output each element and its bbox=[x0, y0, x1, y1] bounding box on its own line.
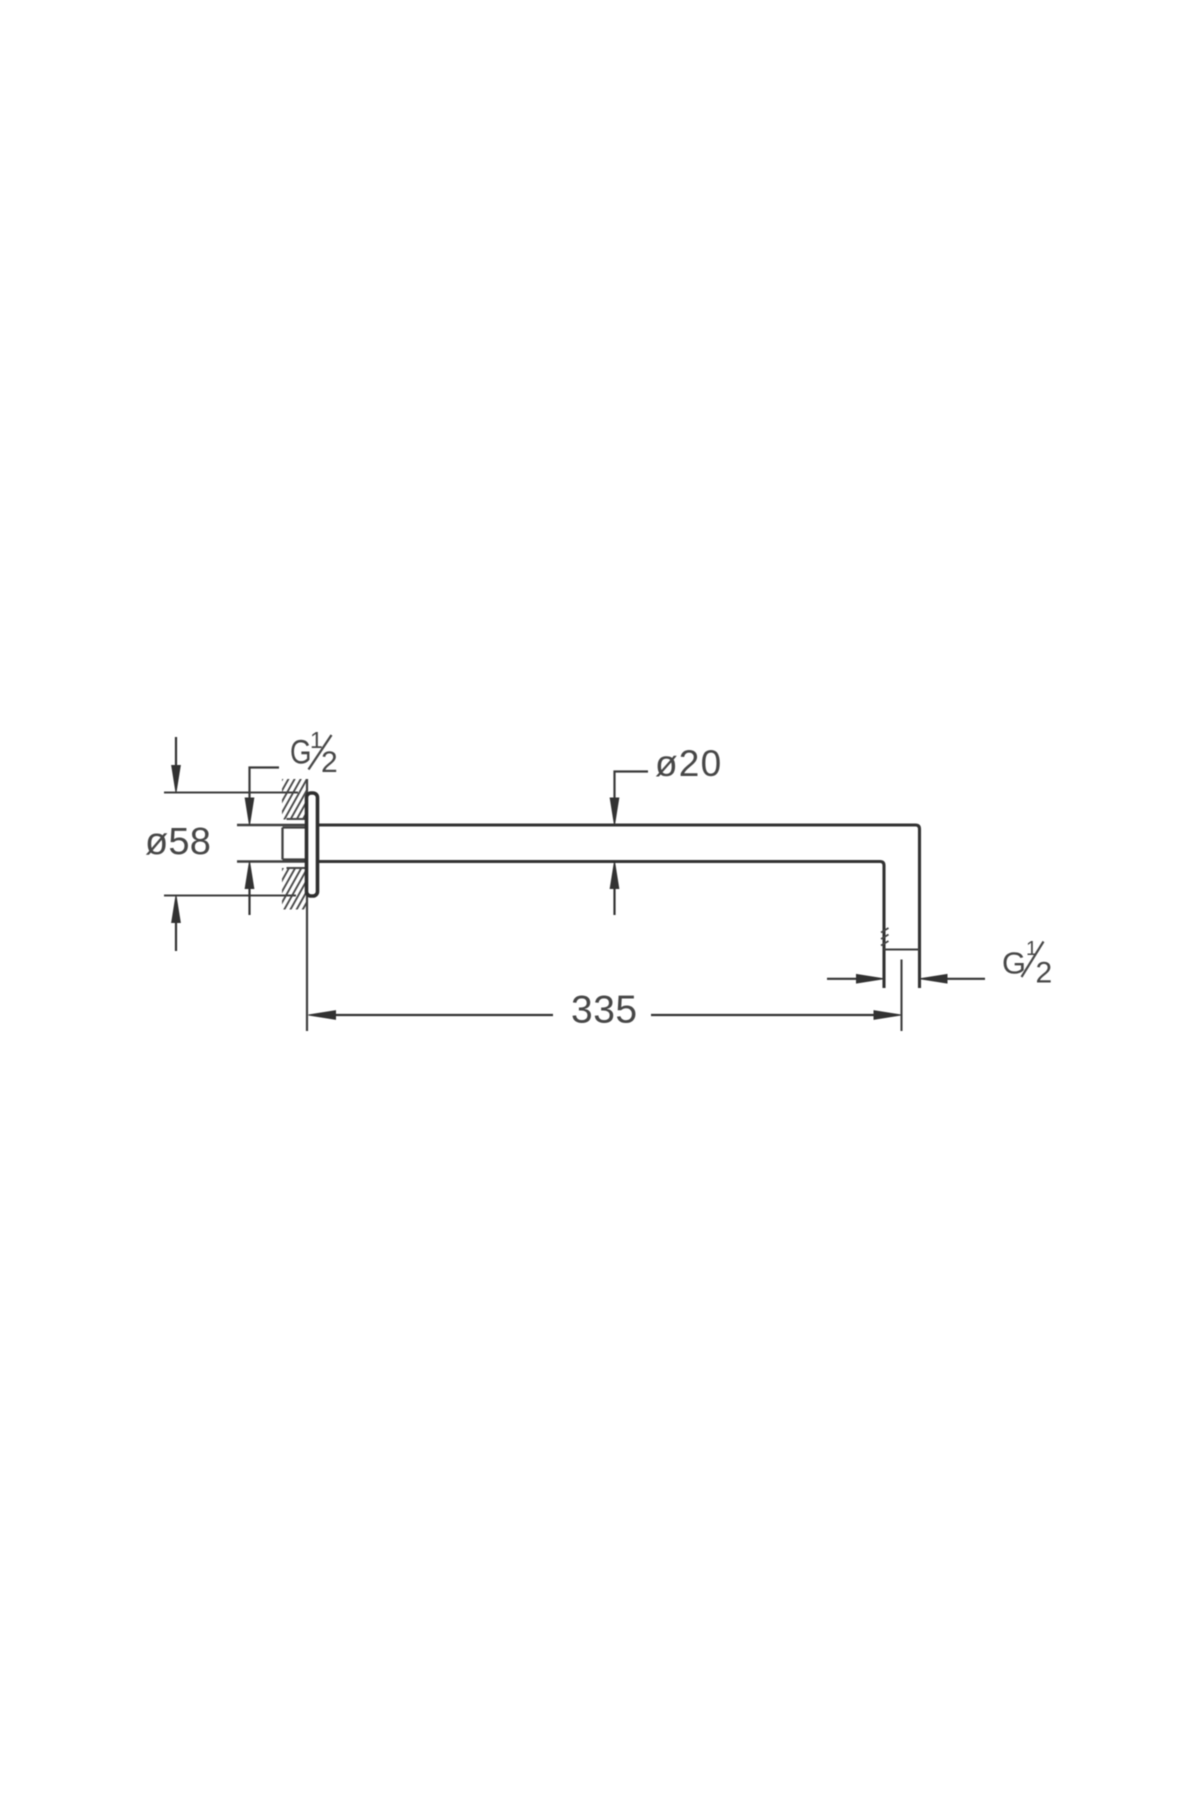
thread boundary line on vertical outlet bbox=[884, 948, 920, 950]
dimension ø58 top arrow bbox=[172, 737, 181, 793]
wall hole edge lines bbox=[287, 819, 306, 868]
wall line bbox=[306, 779, 308, 1031]
dimension 335 line left part bbox=[309, 1011, 554, 1020]
svg-text:ø58: ø58 bbox=[145, 821, 211, 863]
dimension ø58 extension lines bbox=[164, 793, 298, 896]
dimension ø58 bottom arrow bbox=[172, 896, 181, 952]
dimension G1/2 left top arrow bbox=[245, 798, 254, 825]
shower arm pipe bbox=[317, 825, 920, 988]
dimension ø20 leader bbox=[615, 772, 649, 800]
dimension ø20 top arrow bbox=[610, 798, 619, 825]
svg-text:335: 335 bbox=[571, 989, 638, 1032]
dimension G1/2 right right arrow bbox=[920, 975, 985, 984]
dimension ø20 bottom arrow bbox=[610, 862, 619, 916]
svg-text:2: 2 bbox=[321, 746, 338, 779]
wall hatching bbox=[270, 715, 312, 1023]
svg-text:2: 2 bbox=[1036, 957, 1053, 990]
outlet center line bbox=[900, 960, 902, 1032]
label G1/2 right bbox=[1002, 938, 1052, 990]
threaded nipple behind wall bbox=[283, 828, 307, 860]
dimension G1/2 left leader bbox=[250, 768, 280, 800]
dimension G1/2 right left arrow bbox=[827, 975, 884, 984]
wall flange bbox=[307, 793, 318, 896]
thread run-out ticks bbox=[881, 928, 889, 946]
nipple thread OD lines (G1/2 extension) bbox=[237, 825, 306, 862]
svg-text:ø20: ø20 bbox=[655, 743, 722, 784]
dimension 335 line right part bbox=[651, 1011, 901, 1020]
label G1/2 left bbox=[290, 727, 338, 779]
svg-text:G: G bbox=[290, 734, 312, 772]
dimension G1/2 left bottom arrow bbox=[245, 862, 254, 916]
